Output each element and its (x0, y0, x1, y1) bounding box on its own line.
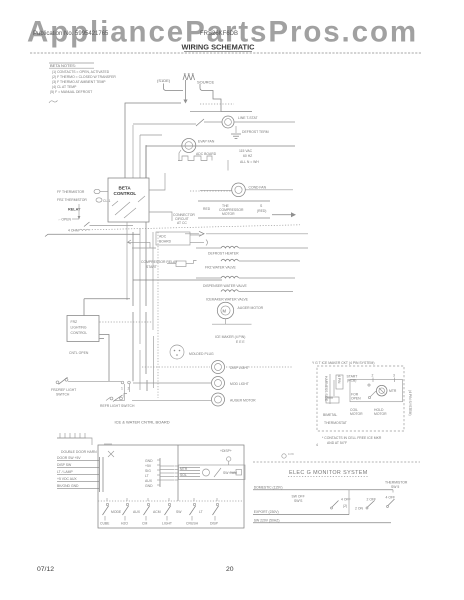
adc board contact (178, 152, 217, 161)
svg-text:BK/GND GND: BK/GND GND (57, 484, 79, 488)
vertical bus x127 (126, 222, 128, 300)
header rule (30, 52, 421, 54)
icemaker bottom labels (324, 408, 387, 425)
svg-text:+DISP+: +DISP+ (220, 449, 232, 453)
svg-text:1CW: 1CW (288, 452, 294, 456)
svg-text:SW OFF: SW OFF (292, 495, 305, 499)
svg-text:AUX: AUX (145, 479, 153, 483)
icemaker plug pins (327, 374, 343, 404)
svg-text:FRZ THERMISTOR: FRZ THERMISTOR (57, 198, 87, 202)
svg-text:LT / LAMP: LT / LAMP (57, 470, 73, 474)
svg-text:GND: GND (145, 459, 153, 463)
svg-text:WIRING SCHEMATIC: WIRING SCHEMATIC (182, 43, 256, 52)
wire switch row (68, 380, 121, 382)
svg-text:20: 20 (226, 566, 234, 573)
wire dotted top (200, 103, 234, 105)
wire left bus A (45, 234, 140, 236)
svg-text:4: 4 (316, 443, 318, 447)
wire jog arrowed (128, 240, 157, 248)
mod light lamp (212, 377, 249, 390)
elec section separator (253, 461, 420, 463)
svg-text:ICEMAKER WATER VALVE: ICEMAKER WATER VALVE (206, 298, 249, 302)
icemaker water valve coil (206, 290, 293, 302)
svg-text:4 PIN: 4 PIN (337, 375, 341, 384)
svg-text:REFR LIGHT SWITCH: REFR LIGHT SWITCH (100, 404, 135, 408)
svg-text:DEFROST TERM: DEFROST TERM (242, 130, 269, 134)
switch bank membrane (100, 498, 219, 526)
svg-text:MODE: MODE (111, 510, 122, 514)
lighting control box (67, 316, 99, 356)
door signal wire 5 (57, 484, 99, 489)
header publication number (33, 31, 238, 37)
svg-text:DISP LIGHT: DISP LIGHT (230, 366, 249, 370)
svg-text:DISP SW: DISP SW (57, 463, 72, 467)
notes block BETA NOTES (49, 63, 116, 103)
svg-text:DOOR SW +5V: DOOR SW +5V (57, 456, 81, 460)
svg-text:(4 PIN SYSTEM): (4 PIN SYSTEM) (408, 390, 412, 416)
svg-text:FF THERMISTOR: FF THERMISTOR (57, 190, 85, 194)
svg-text:MOLDED PLUG: MOLDED PLUG (189, 352, 214, 356)
svg-text:CL-1: CL-1 (103, 199, 110, 203)
ice maker dashed box (317, 366, 404, 431)
svg-text:SOURCE: SOURCE (197, 79, 214, 84)
svg-text:ICE MAKER (4 PIN): ICE MAKER (4 PIN) (215, 335, 245, 339)
svg-text:E E E: E E E (236, 340, 245, 344)
svg-text:Y G T ICE MAKER CKT (4 PIN: Y G T ICE MAKER CKT (4 PIN SYSTEM) (312, 361, 375, 365)
resistor 4 ohm (79, 229, 89, 230)
watermark AppliancePartsPros.com (27, 16, 418, 49)
svg-text:2: 2 (372, 374, 374, 378)
frz water valve coil (205, 259, 300, 269)
wire compressor start (198, 217, 270, 219)
vertical bus x140 (139, 228, 141, 390)
wire auger row (132, 400, 211, 402)
defrost thermostat inline (167, 261, 197, 267)
frz light switch (51, 377, 76, 396)
disp lamp small (282, 452, 295, 458)
icemaker inner box (350, 380, 403, 402)
svg-text:3: 3 (393, 374, 395, 378)
adc relay box (156, 232, 208, 246)
vertical bus x133 (132, 232, 134, 381)
svg-text:SW: SW (176, 510, 182, 514)
svg-text:CUBE: CUBE (100, 522, 110, 526)
svg-text:BETA: BETA (119, 185, 132, 190)
svg-text:MOD LIGHT: MOD LIGHT (230, 382, 249, 386)
svg-text:ELEC G MONITOR SYSTEM: ELEC G MONITOR SYSTEM (289, 470, 368, 476)
svg-text:Publication No. 5995421765: Publication No. 5995421765 (33, 31, 109, 37)
dispenser solenoid box (179, 465, 246, 480)
svg-text:OPEN: OPEN (351, 397, 361, 401)
frz thermistor (57, 198, 110, 203)
wire lighting dotted out (100, 321, 153, 323)
svg-text:(5) F = MANUAL DEFROST: (5) F = MANUAL DEFROST (50, 90, 92, 94)
defrost termination ground (231, 126, 269, 138)
svg-text:EXPORT (230V): EXPORT (230V) (254, 510, 279, 514)
svg-text:START: START (146, 265, 157, 269)
svg-text:4 OHM: 4 OHM (68, 229, 79, 233)
svg-text:ALL N = WH: ALL N = WH (240, 160, 259, 164)
thermistor sw label (385, 481, 408, 490)
svg-text:SW'S: SW'S (294, 499, 303, 503)
wire valve bus (133, 279, 222, 281)
door signal wire 3 (57, 470, 99, 475)
svg-text:CONTROL: CONTROL (114, 191, 137, 196)
svg-text:(2) F THERMO = CLOSED W: (2) F THERMO = CLOSED W TRANSFER (52, 75, 116, 79)
svg-text:(RED): (RED) (257, 209, 266, 213)
svg-text:ADC BOARD: ADC BOARD (196, 152, 217, 156)
svg-text:DISPENSER WATER VALVE: DISPENSER WATER VALVE (203, 284, 248, 288)
svg-text:GND: GND (145, 484, 153, 488)
cabinet boundary hatched (89, 225, 300, 230)
svg-text:MOTOR: MOTOR (222, 212, 235, 216)
wire line cord right lead (200, 84, 252, 112)
svg-text:LINE T-STAT: LINE T-STAT (238, 116, 258, 120)
svg-text:LT: LT (199, 510, 203, 514)
wire defrost branch arrowed (185, 231, 308, 236)
wire line1 with switch (133, 119, 222, 178)
svg-text:LIGHTING: LIGHTING (71, 326, 87, 330)
door harness connector comb (57, 433, 97, 454)
defrost relay (58, 204, 90, 233)
wire corner bus3 main (146, 145, 295, 178)
wire line cord left lead (164, 84, 184, 91)
wire lighting down (100, 335, 110, 382)
export sw line (253, 518, 391, 522)
svg-text:←OPEN: ←OPEN (58, 218, 72, 222)
svg-text:EVAP FAN: EVAP FAN (198, 140, 215, 144)
terminals 1 2 (115, 381, 131, 400)
svg-text:FRZ WATER VALVE: FRZ WATER VALVE (205, 266, 237, 270)
compressor circuit label (173, 213, 195, 225)
ice maker label (215, 335, 245, 344)
svg-text:AUGER MOTOR: AUGER MOTOR (238, 306, 264, 310)
defrost heater coil (196, 246, 308, 255)
svg-text:(S1DE): (S1DE) (157, 78, 171, 83)
svg-text:ICE & WATER CNTRL BOARD: ICE & WATER CNTRL BOARD (115, 419, 170, 424)
wire defrost feed (90, 225, 134, 227)
bimetal thermostat (323, 397, 339, 417)
svg-text:1: 1 (121, 387, 123, 391)
divider pin ticks (175, 466, 179, 480)
door signal wire 4 (57, 477, 99, 482)
svg-text:COMPRESSOR RELAY: COMPRESSOR RELAY (141, 260, 178, 264)
svg-text:+5V: +5V (145, 464, 152, 468)
svg-text:ADC: ADC (159, 235, 167, 239)
svg-text:AUGER MOTOR: AUGER MOTOR (230, 399, 256, 403)
svg-text:(RCB): (RCB) (347, 379, 356, 383)
svg-text:DEFROST HEATER: DEFROST HEATER (208, 252, 239, 256)
label 115 VAC 60 HZ (239, 149, 259, 164)
door signal wire 1 (57, 456, 99, 461)
line thermostat (222, 116, 295, 128)
ff thermistor (57, 189, 108, 194)
svg-text:BOARD: BOARD (159, 240, 172, 244)
svg-text:FRS26KF6DB: FRS26KF6DB (200, 31, 238, 37)
arrow to compressor (272, 212, 296, 217)
icemaker contacts (347, 374, 396, 401)
board divider (177, 445, 179, 501)
svg-text:COND FAN: COND FAN (249, 186, 267, 190)
svg-text:CNTL OPEN: CNTL OPEN (69, 351, 89, 355)
svg-text:BETA NOTES:: BETA NOTES: (50, 63, 76, 68)
svg-text:H2O: H2O (121, 522, 128, 526)
svg-text:* CONTACTS IN CELL FREE IC: * CONTACTS IN CELL FREE ICE MKR (322, 436, 382, 440)
svg-text:MOTOR: MOTOR (374, 412, 387, 416)
wire dotted lamp row (142, 366, 292, 368)
hold motor (376, 385, 396, 396)
svg-text:BIMETAL: BIMETAL (323, 413, 337, 417)
svg-text:CM: CM (142, 522, 147, 526)
ref light switch (100, 394, 135, 409)
wire corner bus2 (140, 135, 162, 178)
selector switches (292, 495, 396, 511)
wire corner bus1 (125, 103, 181, 178)
door signal wire 2 (57, 463, 99, 468)
wire selector vertical (348, 490, 350, 515)
icemaker footnote (316, 436, 382, 447)
svg-text:SWITCH: SWITCH (56, 393, 70, 397)
svg-text:60 HZ: 60 HZ (243, 154, 252, 158)
svg-text:MTR: MTR (180, 467, 188, 471)
svg-text:FRZ/REF LIGHT: FRZ/REF LIGHT (51, 388, 76, 392)
disp light lamp (212, 361, 249, 374)
auger solenoid lamp (212, 393, 257, 406)
wire lighting feed corner (84, 299, 130, 316)
svg-text:CONTROL: CONTROL (71, 331, 88, 335)
svg-text:AND AT 54°F: AND AT 54°F (327, 441, 347, 445)
beta control board U1 (108, 178, 149, 222)
svg-text:CRUSH: CRUSH (186, 522, 199, 526)
svg-text:SW 5: SW 5 (391, 485, 399, 489)
svg-text:SW CAM: SW CAM (223, 471, 237, 475)
dispenser water valve coil (196, 276, 295, 288)
svg-text:DISP: DISP (210, 522, 219, 526)
vertical bus x158 dashed (157, 232, 159, 398)
svg-text:ACM: ACM (153, 510, 161, 514)
molded plug connector (170, 345, 214, 359)
dispenser control board box (98, 445, 244, 528)
export line (253, 510, 349, 514)
svg-text:115 VAC: 115 VAC (239, 149, 253, 153)
wire beta out right upper (149, 173, 165, 190)
svg-text:LT: LT (145, 474, 149, 478)
svg-text:MOTOR: MOTOR (350, 412, 363, 416)
power cord plug prongs (183, 74, 195, 80)
svg-text:AT CC: AT CC (177, 221, 187, 225)
svg-text:07/12: 07/12 (37, 566, 54, 573)
svg-text:SW 220V (50HZ): SW 220V (50HZ) (254, 518, 280, 522)
wire beta out right lower (149, 212, 172, 221)
svg-text:(2): (2) (343, 504, 347, 508)
board dashed divider (98, 500, 244, 502)
svg-text:SOL: SOL (180, 473, 187, 477)
vertical bus x153 (152, 232, 155, 388)
compressor relay labels (141, 260, 178, 269)
svg-text:+5 VDC AUX: +5 VDC AUX (57, 477, 77, 481)
crossing signal wires (160, 466, 174, 480)
door disp switch (220, 449, 232, 465)
svg-text:SIG: SIG (145, 469, 151, 473)
svg-text:THERMISTOR: THERMISTOR (385, 481, 408, 485)
vertical bus x146 (146, 146, 147, 391)
svg-text:2 OFF: 2 OFF (367, 498, 377, 502)
cond fan motor (200, 183, 293, 197)
svg-text:DOUBLE DOOR HARN: DOUBLE DOOR HARN (61, 450, 97, 454)
svg-text:(3) F THERMO AT AMBIENT T: (3) F THERMO AT AMBIENT TEMP (52, 80, 106, 84)
svg-text:M: M (223, 309, 227, 314)
svg-text:2 ON: 2 ON (355, 507, 363, 511)
board pin bracket J2 (145, 458, 160, 488)
wire compressor run (198, 200, 270, 202)
svg-text:(1) CONTACTS = OPEN, ACTIV: (1) CONTACTS = OPEN, ACTIVATED (52, 70, 110, 74)
svg-text:DOMESTIC (115V): DOMESTIC (115V) (254, 485, 283, 489)
evap fan motor (179, 139, 215, 162)
svg-text:MTR: MTR (389, 389, 397, 393)
svg-text:LIGHT: LIGHT (162, 522, 172, 526)
compressor labels (203, 204, 266, 216)
wire neutral left segment (190, 111, 221, 113)
svg-text:(4) CL AT TEMP: (4) CL AT TEMP (52, 85, 77, 89)
domestic line (253, 485, 393, 492)
svg-text:4 OFF: 4 OFF (386, 496, 396, 500)
ground center prong (183, 80, 187, 104)
wire stub x228 (227, 160, 229, 171)
auger motor M1 (212, 302, 264, 324)
svg-text:RED: RED (203, 207, 211, 211)
compressor top dotted boundary (190, 190, 231, 192)
svg-text:THERMOSTAT: THERMOSTAT (324, 421, 347, 425)
svg-text:AUX: AUX (133, 510, 141, 514)
wire mod light row (133, 382, 211, 384)
relay contact mark (104, 444, 114, 457)
board edge connector bracket (100, 457, 104, 492)
svg-text:FRZ: FRZ (71, 320, 78, 324)
